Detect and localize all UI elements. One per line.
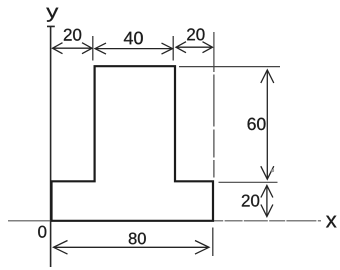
extension tick at x=93 (top) [92, 36, 94, 61]
extension line from stem top to right [179, 66, 280, 68]
dimension 80 (bottom) arrow [54, 241, 210, 255]
T-section outline [52, 66, 214, 221]
dimension text 80 [129, 233, 146, 245]
dimension 20 (top left) arrow [53, 43, 93, 54]
dimension 40 (top middle) arrow [95, 43, 173, 54]
dimension text 20 (right lower) [242, 195, 259, 207]
y axis label [46, 8, 58, 22]
extension line at x=214 (right edge, long) [213, 32, 215, 178]
dimension 20 (right lower) arrow [261, 186, 273, 217]
origin label 0 [38, 226, 46, 238]
dimension text 40 [124, 32, 143, 45]
dimension text 60 [248, 118, 266, 130]
dimension 60 (right vertical) arrow [261, 70, 274, 179]
extension tick at x=213 (bottom) [212, 228, 214, 257]
scan speck near lower 60 arrowhead [271, 169, 273, 171]
extension tick at x=173 (top) [172, 36, 174, 61]
x axis label [326, 216, 337, 228]
extension line from base top to right [219, 181, 278, 183]
x-axis [8, 220, 321, 222]
dimension 20 (top right) arrow [176, 42, 213, 53]
dimension text 20 (top left) [64, 29, 81, 41]
y-axis [47, 26, 55, 267]
dimension text 20 (top right) [187, 28, 204, 40]
